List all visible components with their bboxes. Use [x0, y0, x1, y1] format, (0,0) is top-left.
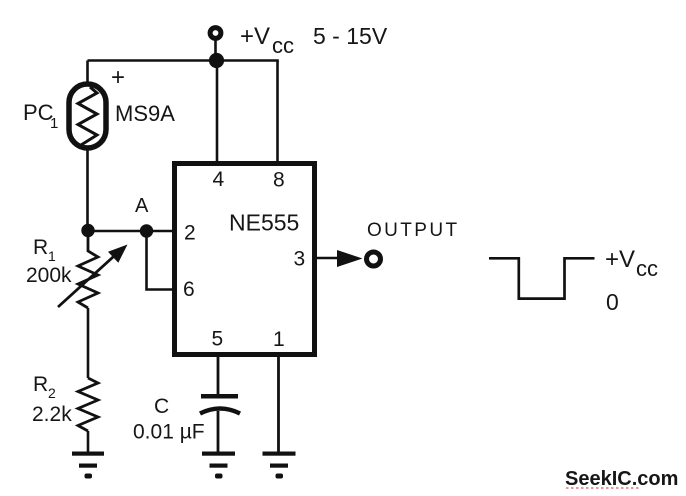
- wire pin 4 to Vcc: [216, 61, 219, 164]
- svg-text:5: 5: [212, 328, 224, 351]
- svg-text:+: +: [111, 64, 125, 91]
- wire Vcc to PC1: [86, 61, 89, 85]
- svg-text:cc: cc: [272, 33, 294, 58]
- svg-text:R: R: [33, 373, 48, 396]
- ground R2: [72, 452, 104, 479]
- wire pin 3 output: [317, 257, 342, 260]
- svg-text:+V: +V: [605, 246, 635, 273]
- IC U1 NE555: [175, 164, 315, 355]
- svg-text:0: 0: [606, 289, 619, 315]
- wire R1 to R2: [87, 308, 90, 378]
- svg-text:2.2k: 2.2k: [32, 403, 72, 426]
- svg-text:OUTPUT: OUTPUT: [367, 220, 460, 241]
- svg-text:1: 1: [48, 248, 56, 264]
- svg-text:1: 1: [273, 328, 285, 351]
- svg-text:5 - 15V: 5 - 15V: [313, 23, 388, 49]
- wire Vcc rail: [88, 59, 279, 62]
- wire PC1 to node A: [86, 148, 89, 231]
- watermark spellcheck underline: [566, 487, 641, 489]
- waveform output: [489, 258, 595, 298]
- node Vcc junction: [209, 53, 224, 68]
- wire capacitor to ground: [217, 411, 220, 452]
- svg-text:MS9A: MS9A: [115, 101, 175, 126]
- wire R2 to ground: [87, 431, 90, 452]
- svg-text:3: 3: [294, 248, 306, 271]
- node A junction: [140, 224, 153, 237]
- terminal OUTPUT: [367, 252, 381, 266]
- svg-text:R: R: [33, 236, 48, 259]
- capacitor C: [200, 394, 240, 414]
- svg-text:2: 2: [48, 385, 56, 401]
- svg-text:6: 6: [183, 278, 195, 301]
- svg-text:200k: 200k: [26, 264, 72, 287]
- wire pin 5 to capacitor: [217, 357, 220, 395]
- resistor R1 (variable): [58, 231, 128, 308]
- wire node A to pin 6: [147, 231, 175, 290]
- wire pin 8 to Vcc: [276, 61, 279, 164]
- photocell PC1: [69, 84, 106, 148]
- wire terminal to Vcc rail: [214, 40, 217, 60]
- svg-text:2: 2: [184, 222, 196, 245]
- svg-text:C: C: [154, 395, 169, 418]
- node junction left: [81, 224, 94, 237]
- svg-text:cc: cc: [636, 256, 658, 281]
- svg-text:A: A: [135, 195, 149, 217]
- terminal +Vcc: [210, 28, 221, 39]
- svg-text:SeekIC.com: SeekIC.com: [565, 468, 678, 490]
- svg-text:1: 1: [50, 115, 58, 132]
- ground capacitor: [202, 452, 235, 479]
- svg-text:0.01 µF: 0.01 µF: [133, 421, 205, 444]
- output arrowhead: [337, 250, 363, 267]
- ground pin 1: [263, 452, 296, 479]
- wire pin 1 to ground: [277, 357, 280, 452]
- svg-text:+V: +V: [240, 23, 270, 50]
- wire node A to pin 2: [88, 230, 174, 233]
- svg-text:NE555: NE555: [229, 210, 299, 236]
- svg-text:8: 8: [273, 169, 285, 192]
- svg-text:4: 4: [213, 168, 225, 191]
- resistor R2: [78, 378, 98, 431]
